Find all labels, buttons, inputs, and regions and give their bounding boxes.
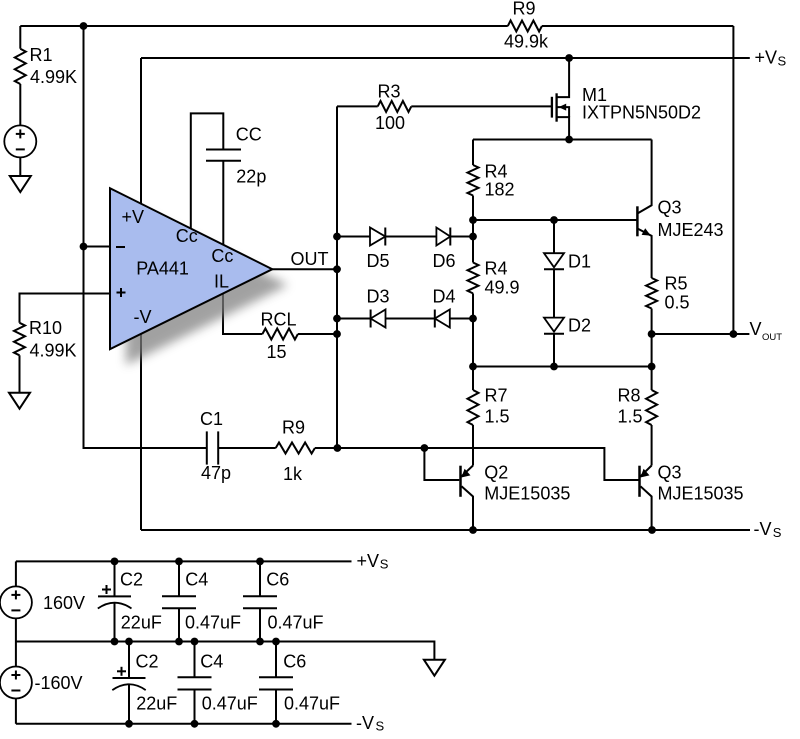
resistor R1 4.99K — [15, 49, 26, 84]
label R10 value — [30, 341, 77, 361]
node R8 top junction — [648, 363, 656, 371]
wire feedback vertical — [732, 26, 734, 334]
svg-text:D5: D5 — [367, 251, 390, 271]
label D5 — [367, 251, 390, 271]
label R5 — [665, 273, 688, 293]
wire VOUT row — [652, 333, 750, 335]
wire bottom bias row — [473, 366, 652, 368]
wire R4-182 to R4-49.9 — [472, 196, 474, 263]
node D3 junction — [333, 315, 341, 323]
label C1 — [200, 409, 223, 429]
wire feedback bus — [84, 26, 207, 448]
node C4b bottom — [191, 720, 199, 728]
wire +V pin to +VS rail — [140, 58, 142, 205]
svg-text:100: 100 — [375, 113, 405, 133]
node D1 top junction — [550, 216, 558, 224]
label D4 — [433, 287, 456, 307]
svg-text:S: S — [376, 719, 385, 734]
wire R3 left — [337, 105, 378, 107]
svg-text:MJE15035: MJE15035 — [484, 483, 570, 503]
svg-text:R3: R3 — [378, 81, 401, 101]
label C6 top — [266, 569, 289, 589]
voltage source V2 160V — [0, 586, 32, 618]
label R3 — [378, 81, 401, 101]
node VOUT feedback junction — [730, 330, 738, 338]
wire C1 to R9b — [218, 447, 276, 449]
label D2 — [568, 316, 591, 336]
label IL pin — [214, 271, 229, 291]
svg-text:C4: C4 — [185, 569, 208, 589]
label M1 — [582, 85, 607, 105]
node C4b top — [191, 638, 199, 646]
svg-text:C1: C1 — [200, 409, 223, 429]
label -160V — [35, 673, 83, 693]
label RCL — [261, 310, 297, 330]
node C6b top — [272, 638, 280, 646]
op-amp U1 shadow — [126, 204, 288, 365]
node C2b bottom — [125, 720, 133, 728]
svg-text:4.99K: 4.99K — [30, 67, 77, 87]
label CC — [236, 125, 262, 145]
node inverting input junction — [80, 243, 88, 251]
wire R1 top lead — [19, 26, 21, 49]
transistor M1 IXTPN5N50D2 — [552, 58, 569, 140]
resistor RCL 15 — [262, 329, 298, 340]
label 0.47uF top 2 — [268, 612, 324, 632]
wire R8 to Q4 — [651, 425, 653, 466]
wire OUT bus vertical — [336, 106, 338, 448]
label OUT — [291, 249, 329, 269]
wire V2 to mid — [15, 618, 17, 641]
label 22uF bottom — [136, 693, 177, 713]
wire V3 to bottom — [15, 699, 17, 724]
label Q4 part — [658, 483, 744, 503]
capacitor C6 bottom 0.47uF — [259, 677, 293, 689]
node C6t top — [256, 558, 264, 566]
label R8 — [618, 385, 641, 405]
label 160V — [43, 593, 85, 613]
label 22p — [236, 167, 266, 187]
wire supply mid rail — [16, 642, 435, 660]
wire C4t bottom lead — [178, 608, 180, 641]
wire -VS rail — [141, 529, 750, 531]
svg-text:MJE15035: MJE15035 — [658, 483, 744, 503]
svg-text:Cc: Cc — [176, 226, 198, 246]
label RCL value 15 — [267, 342, 287, 362]
wire -V pin down — [140, 333, 142, 530]
op-amp U1 PA441 — [110, 188, 272, 349]
svg-text:+V: +V — [122, 207, 145, 227]
label 0.47uF bottom — [202, 693, 258, 713]
wire V2 top lead — [15, 561, 17, 586]
svg-text:15: 15 — [267, 342, 287, 362]
resistor R5 0.5 — [646, 278, 657, 309]
svg-text:1.5: 1.5 — [485, 406, 510, 426]
svg-text:C6: C6 — [283, 651, 306, 671]
svg-text:D4: D4 — [433, 287, 456, 307]
svg-text:0.47uF: 0.47uF — [284, 693, 340, 713]
svg-text:182: 182 — [485, 179, 515, 199]
resistor R10 4.99K — [14, 323, 25, 356]
label R4 182 — [485, 161, 508, 181]
svg-text:-V: -V — [134, 307, 152, 327]
capacitor C1 47p — [207, 431, 218, 464]
wire D1 top lead — [553, 220, 555, 253]
svg-text:CC: CC — [236, 125, 262, 145]
label M1 part — [582, 103, 701, 123]
wire C6t bottom lead — [259, 608, 261, 641]
label D1 — [568, 251, 591, 271]
wire C6b top lead — [275, 642, 277, 678]
svg-text:C2: C2 — [136, 651, 159, 671]
svg-text:S: S — [778, 54, 787, 69]
node Q2 base junction — [421, 444, 429, 452]
diode D3 — [371, 310, 386, 328]
wire RCL to OUT bus — [298, 333, 337, 335]
svg-text:MJE243: MJE243 — [658, 220, 724, 240]
svg-text:49.9k: 49.9k — [504, 31, 549, 51]
svg-text:4.99K: 4.99K — [30, 341, 77, 361]
wire Cc pin 1 — [191, 113, 224, 229]
wire R7 to Q2 — [472, 425, 474, 466]
svg-text:R9: R9 — [282, 417, 305, 437]
label 22uF top — [121, 612, 162, 632]
label VOUT — [750, 319, 783, 343]
svg-text:1.5: 1.5 — [618, 406, 643, 426]
pin - symbol — [116, 246, 125, 248]
label Cc pin 2 — [211, 246, 233, 266]
label -VS bottom — [356, 713, 385, 734]
node D6 cathode junction — [469, 233, 477, 241]
svg-text:V: V — [750, 319, 762, 339]
capacitor CC 22p — [206, 150, 241, 161]
node C2b top — [125, 638, 133, 646]
wire bus to D5 — [337, 236, 370, 238]
node OUT junction — [333, 265, 341, 273]
capacitor C2 bottom 22uF — [112, 667, 145, 690]
wire C2b bottom lead — [128, 684, 130, 724]
voltage source V3 -160V — [0, 667, 32, 699]
resistor R4 182 — [468, 165, 479, 196]
svg-text:0.47uF: 0.47uF — [202, 693, 258, 713]
wire R1 to source V1 — [19, 84, 21, 125]
resistor R8 1.5 — [646, 390, 657, 425]
label R9 1k — [282, 417, 305, 437]
svg-text:+V: +V — [357, 551, 380, 571]
wire bus to D3 — [337, 318, 371, 320]
svg-text:+V: +V — [755, 47, 778, 67]
svg-text:0.47uF: 0.47uF — [185, 612, 241, 632]
wire top feedback row — [20, 25, 733, 27]
label R10 — [29, 318, 62, 338]
label 0.47uF top — [185, 612, 241, 632]
wire IL pin to RCL — [223, 293, 262, 335]
svg-text:C6: C6 — [266, 569, 289, 589]
label C2 bottom — [136, 651, 159, 671]
label R8 value — [618, 406, 643, 426]
wire supply top rail — [16, 560, 352, 562]
label C4 bottom — [200, 651, 223, 671]
svg-text:C4: C4 — [200, 651, 223, 671]
wire +VS rail — [141, 57, 750, 59]
label Q3 top — [658, 197, 682, 217]
node C6b bottom — [272, 720, 280, 728]
wire R4-182 top lead — [472, 140, 474, 166]
label D3 — [367, 287, 390, 307]
wire M1 source row — [473, 139, 652, 141]
svg-text:Q3: Q3 — [658, 462, 682, 482]
wire D1 to D2 — [553, 269, 555, 317]
wire Cc pin 2 — [222, 161, 224, 246]
node D4 junction — [469, 315, 477, 323]
label -VS rail — [754, 519, 782, 540]
transistor Q2 MJE15035 — [461, 466, 474, 531]
wire V1 to ground — [19, 157, 21, 176]
diode D4 — [435, 310, 450, 328]
label R7 value — [485, 406, 510, 426]
svg-text:D6: D6 — [433, 251, 456, 271]
label R4 49.9 — [485, 258, 508, 278]
wire noninverting input — [20, 294, 112, 323]
node D5 junction — [333, 233, 341, 241]
svg-text:49.9: 49.9 — [485, 277, 520, 297]
node C1 row OUT bus junction — [334, 444, 342, 452]
svg-text:D3: D3 — [367, 287, 390, 307]
resistor R7 1.5 — [468, 390, 479, 425]
wire OUT — [272, 268, 337, 270]
label C4 top — [185, 569, 208, 589]
ground below R10 — [9, 393, 30, 409]
svg-text:R7: R7 — [485, 385, 508, 405]
svg-text:Cc: Cc — [211, 246, 233, 266]
wire C6b bottom lead — [275, 690, 277, 724]
label R3 value 100 — [375, 113, 405, 133]
wire D5 to D6 — [385, 236, 436, 238]
ground supply — [424, 660, 445, 676]
pin + symbol — [117, 288, 126, 297]
wire D4 to bus — [450, 318, 473, 320]
node Q3 base row junction — [469, 216, 477, 224]
label C2 top — [120, 569, 143, 589]
wire R10 to ground — [19, 355, 21, 392]
label -V pin — [134, 307, 152, 327]
transistor Q4 MJE15035 — [640, 466, 652, 531]
label 49.9 — [485, 277, 520, 297]
svg-text:-V: -V — [754, 519, 772, 539]
wire R8 bus — [651, 367, 653, 391]
svg-text:R9: R9 — [513, 0, 536, 19]
svg-text:OUT: OUT — [291, 249, 329, 269]
wire R3 to M1 gate — [411, 105, 551, 107]
diode D1 — [544, 253, 564, 269]
wire C2b top lead — [128, 642, 130, 679]
wire D2 bottom lead — [553, 334, 555, 367]
svg-text:22uF: 22uF — [121, 612, 162, 632]
node C2t bottom — [111, 638, 119, 646]
wire C6t top lead — [259, 561, 261, 596]
svg-text:R10: R10 — [29, 318, 62, 338]
svg-text:47p: 47p — [201, 463, 231, 483]
wire Q3 base row — [473, 219, 637, 221]
wire supply bottom rail — [16, 723, 352, 725]
svg-text:C2: C2 — [120, 569, 143, 589]
resistor R3 100 — [378, 101, 412, 112]
label 49.9k — [504, 31, 549, 51]
wire V3 top lead — [15, 642, 17, 667]
svg-text:22uF: 22uF — [136, 693, 177, 713]
node Q4 collector junction — [648, 526, 656, 534]
resistor R4 49.9 — [468, 263, 479, 294]
svg-text:R5: R5 — [665, 273, 688, 293]
label 0.47uF bottom 2 — [284, 693, 340, 713]
svg-text:1k: 1k — [283, 464, 303, 484]
label +V pin — [122, 207, 145, 227]
label Q2 — [484, 462, 508, 482]
svg-text:0.5: 0.5 — [665, 292, 690, 312]
node M1 source junction — [565, 136, 573, 144]
label R9 top — [513, 0, 536, 19]
svg-text:S: S — [380, 557, 389, 572]
wire inverting input — [84, 246, 112, 248]
wire D6 to bus — [450, 236, 473, 238]
label R7 — [485, 385, 508, 405]
svg-text:Q2: Q2 — [484, 462, 508, 482]
svg-text:R4: R4 — [485, 258, 508, 278]
svg-text:S: S — [773, 525, 782, 540]
diode D5 — [370, 228, 385, 246]
svg-text:0.47uF: 0.47uF — [268, 612, 324, 632]
voltage source V1 — [4, 125, 36, 157]
node RCL junction — [333, 330, 341, 338]
wire R4-49.9 to bottom row — [472, 293, 474, 366]
wire R7 bus — [472, 367, 474, 391]
svg-text:D1: D1 — [568, 251, 591, 271]
svg-text:Q3: Q3 — [658, 197, 682, 217]
label Cc pin 1 — [176, 226, 198, 246]
node C4t bottom — [175, 638, 183, 646]
label 1k — [283, 464, 303, 484]
label 182 — [485, 179, 515, 199]
svg-text:-160V: -160V — [35, 673, 83, 693]
label Q3 bottom — [658, 462, 682, 482]
label +VS rail — [755, 47, 787, 68]
diode D6 — [436, 228, 450, 246]
wire C2t top lead — [114, 561, 116, 596]
node R5 VOUT junction — [648, 330, 656, 338]
node C2t top — [111, 558, 119, 566]
label R1 — [30, 45, 53, 65]
svg-text:R1: R1 — [30, 45, 53, 65]
svg-text:IXTPN5N50D2: IXTPN5N50D2 — [582, 103, 701, 123]
svg-text:R4: R4 — [485, 161, 508, 181]
svg-text:IL: IL — [214, 271, 229, 291]
node D2 bottom junction — [550, 363, 558, 371]
node junction top feedback — [80, 22, 88, 30]
svg-text:RCL: RCL — [261, 310, 297, 330]
svg-text:OUT: OUT — [762, 332, 782, 343]
wire R9b to Q3 base — [315, 448, 639, 480]
svg-text:-V: -V — [356, 713, 374, 733]
node C6t bottom — [256, 638, 264, 646]
wire C4b bottom lead — [194, 690, 196, 724]
transistor Q3 MJE243 — [637, 140, 651, 279]
capacitor C4 top 0.47uF — [162, 596, 196, 608]
wire R5 to VOUT — [651, 309, 653, 367]
node R7 top junction — [469, 363, 477, 371]
label R1 value — [30, 67, 77, 87]
node Q2 collector junction — [469, 526, 477, 534]
ground below V1 — [10, 176, 31, 192]
wire C2t bottom lead — [114, 602, 116, 641]
label 47p — [201, 463, 231, 483]
label D6 — [433, 251, 456, 271]
resistor R9 top 49.9k — [508, 21, 542, 32]
wire Q2 base — [424, 448, 459, 480]
label C6 bottom — [283, 651, 306, 671]
wire C4t top lead — [178, 561, 180, 596]
node C4t top — [175, 558, 183, 566]
capacitor C2 top 22uF — [98, 585, 132, 609]
resistor R9 1k — [276, 443, 315, 454]
node M1 drain junction — [565, 54, 573, 62]
label 0.5 — [665, 292, 690, 312]
diode D2 — [544, 318, 564, 334]
capacitor C4 bottom 0.47uF — [178, 677, 212, 689]
svg-text:D2: D2 — [568, 316, 591, 336]
label +VS bottom — [357, 551, 389, 572]
wire C4b top lead — [194, 642, 196, 678]
svg-text:160V: 160V — [43, 593, 85, 613]
wire D3 to D4 — [386, 318, 435, 320]
label Q2 part — [484, 483, 570, 503]
label MJE243 — [658, 220, 724, 240]
label PA441 — [136, 258, 189, 278]
svg-text:R8: R8 — [618, 385, 641, 405]
capacitor C6 top 0.47uF — [243, 596, 277, 608]
svg-text:22p: 22p — [236, 167, 266, 187]
svg-text:PA441: PA441 — [136, 258, 189, 278]
